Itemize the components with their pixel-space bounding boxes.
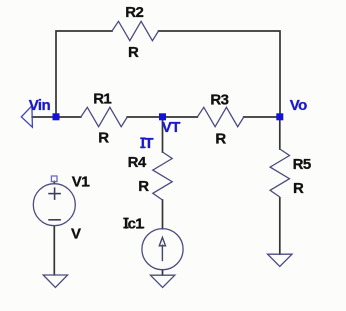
svg-text:V: V [71, 226, 81, 243]
svg-text:VT: VT [162, 119, 180, 136]
svg-text:R1: R1 [93, 91, 111, 108]
svg-text:R: R [128, 44, 139, 61]
svg-text:R3: R3 [210, 91, 228, 108]
svg-text:V1: V1 [72, 174, 89, 191]
svg-text:R: R [138, 178, 149, 195]
svg-text:R: R [293, 180, 304, 197]
svg-text:R5: R5 [293, 156, 311, 173]
svg-text:R: R [215, 130, 226, 147]
svg-text:R4: R4 [128, 154, 147, 171]
svg-text:R: R [98, 130, 109, 147]
svg-text:R2: R2 [125, 4, 143, 21]
svg-text:Vin: Vin [29, 97, 51, 114]
svg-text:Vo: Vo [290, 97, 307, 114]
